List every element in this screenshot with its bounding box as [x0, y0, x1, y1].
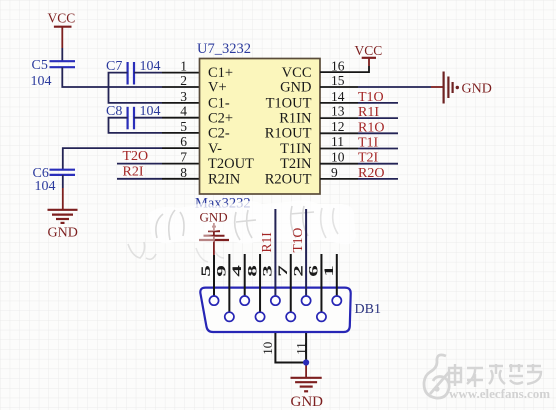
svg-text:5: 5: [199, 265, 213, 277]
wire pin4 (C2+) to C8: [134, 117, 162, 119]
svg-text:T1OUT: T1OUT: [266, 96, 312, 112]
watermark (middle band): [128, 200, 356, 262]
svg-text:12: 12: [331, 119, 345, 134]
wire C8 to pin5 (C2-): [109, 118, 163, 133]
wire pin10 + net label T2I: [320, 151, 398, 166]
DB1 pin circle 1: [332, 296, 341, 305]
wire C5 to pin2 (V+): [62, 67, 162, 87]
DB1 pin circle 3: [271, 296, 280, 305]
wire pin6 (V-) to C6: [162, 147, 200, 149]
wire pin9 + net label R2O: [320, 166, 398, 181]
DB1 pin circle 2: [302, 296, 311, 305]
svg-text:5: 5: [180, 119, 187, 134]
svg-text:C5: C5: [32, 58, 48, 73]
DB9 vertical wire 3 (R1I): [274, 209, 276, 296]
svg-text:8: 8: [180, 165, 187, 180]
svg-text:16: 16: [331, 58, 345, 73]
svg-text:10: 10: [331, 150, 345, 165]
svg-text:T2I: T2I: [358, 151, 379, 166]
svg-text:T1IN: T1IN: [280, 141, 312, 157]
watermark logo (bottom-right): [424, 355, 449, 398]
svg-text:R2I: R2I: [123, 164, 144, 179]
DB1 pin circle 8: [255, 312, 264, 321]
wire pin1 (C1+) to C7: [134, 72, 162, 74]
svg-text:GND: GND: [462, 82, 492, 97]
svg-text:3: 3: [261, 265, 275, 277]
wire C7 to pin3 (C1-): [109, 73, 163, 103]
svg-text:15: 15: [331, 73, 345, 88]
U7 right pin names: [265, 65, 312, 187]
svg-text:R1I: R1I: [259, 232, 274, 253]
svg-text:13: 13: [331, 104, 345, 119]
svg-text:2: 2: [292, 265, 306, 277]
svg-text:GND: GND: [280, 80, 311, 96]
svg-text:9: 9: [215, 265, 229, 277]
svg-text:14: 14: [331, 89, 345, 104]
svg-text:U7_3232: U7_3232: [197, 41, 251, 57]
svg-text:7: 7: [276, 265, 290, 277]
power VCC (right): [355, 43, 383, 58]
svg-text:7: 7: [180, 150, 187, 165]
wire pin11 + net label T1I: [320, 136, 398, 151]
DB9 vertical wire 9: [228, 254, 230, 313]
svg-text:R1O: R1O: [358, 120, 384, 135]
ground GND (C6): [48, 210, 78, 241]
U7 left pin names: [208, 65, 254, 187]
wire pin15 (GND): [320, 86, 358, 88]
svg-text:DB1: DB1: [355, 302, 381, 317]
capacitor C7: [106, 59, 161, 84]
wire pin7 (T2OUT): [117, 163, 162, 165]
wire pin8 (R2IN): [117, 178, 162, 180]
svg-text:R1I: R1I: [358, 105, 379, 120]
svg-text:R1OUT: R1OUT: [265, 126, 312, 142]
wire pin14 + net label T1O: [320, 90, 398, 105]
svg-text:C2-: C2-: [208, 126, 230, 142]
svg-text:T2OUT: T2OUT: [208, 156, 254, 172]
svg-text:GND: GND: [48, 226, 78, 241]
svg-text:www.elecfans.com: www.elecfans.com: [449, 386, 550, 401]
svg-text:R2OUT: R2OUT: [265, 171, 312, 187]
wire C6 to ground: [62, 175, 64, 188]
capacitor C6: [33, 166, 76, 194]
svg-text:R2IN: R2IN: [208, 171, 241, 187]
svg-text:104: 104: [140, 104, 161, 119]
svg-text:6: 6: [180, 134, 187, 149]
DB9 vertical wire 4: [244, 254, 246, 296]
svg-text:2: 2: [180, 73, 187, 88]
wire pin16 to VCC: [320, 66, 369, 72]
DB9 vertical wire 8: [259, 254, 261, 313]
wire pin13 + net label R1I: [320, 105, 398, 120]
capacitor C8: [106, 104, 161, 129]
op-amp U7 Max3232 body: [195, 41, 320, 212]
svg-text:T1O: T1O: [290, 228, 305, 253]
svg-text:9: 9: [331, 165, 338, 180]
svg-text:C1-: C1-: [208, 96, 230, 112]
svg-text:11: 11: [331, 134, 344, 149]
svg-text:1: 1: [322, 265, 336, 277]
wire VCC to C5: [61, 48, 63, 61]
DB1 pin circle 9: [225, 312, 234, 321]
svg-text:104: 104: [31, 74, 52, 89]
svg-text:V-: V-: [208, 141, 222, 157]
wire pin10 of DB1: [275, 333, 306, 363]
wire pin12 + net label R1O: [320, 120, 398, 135]
svg-text:11: 11: [294, 342, 309, 355]
svg-text:T1I: T1I: [358, 136, 379, 151]
svg-text:VCC: VCC: [355, 43, 383, 58]
U7 left pin numbers: [180, 58, 187, 179]
svg-text:GND: GND: [200, 209, 228, 224]
svg-text:1: 1: [180, 58, 187, 73]
svg-text:GND: GND: [291, 394, 324, 410]
svg-text:VCC: VCC: [48, 11, 76, 26]
svg-text:T2IN: T2IN: [280, 156, 312, 172]
svg-text:R1IN: R1IN: [279, 111, 312, 127]
DB1 pin circle 7: [286, 312, 295, 321]
ground GND (DB1): [291, 378, 324, 410]
svg-text:104: 104: [35, 179, 56, 194]
DB9 vertical wire 2 (T1O): [305, 209, 307, 296]
svg-text:C8: C8: [106, 104, 122, 119]
wire pin11 of DB1: [305, 333, 307, 363]
svg-text:8: 8: [245, 265, 259, 277]
capacitor C5: [31, 58, 76, 89]
svg-text:T1O: T1O: [358, 90, 384, 105]
DB9 vertical wire 6: [320, 254, 322, 313]
wire junction to ground: [305, 363, 307, 378]
svg-text:T2O: T2O: [123, 149, 149, 164]
ground GND (right, rotated): [444, 72, 492, 104]
svg-text:4: 4: [180, 104, 187, 119]
power VCC (left): [48, 11, 76, 48]
connector DB1 body: [200, 288, 350, 332]
svg-text:10: 10: [260, 342, 275, 355]
svg-text:3: 3: [180, 89, 187, 104]
DB1 pin circle 5: [209, 296, 218, 305]
DB9 vertical wire 1: [336, 254, 338, 296]
watermark white patches: [204, 222, 219, 232]
DB1 pin circle 4: [240, 296, 249, 305]
svg-text:V+: V+: [208, 80, 227, 96]
DB9 vertical wire 7: [290, 254, 292, 313]
svg-text:4: 4: [230, 265, 244, 277]
DB9 vertical wire 5: [213, 255, 215, 296]
watermark text 电子发烧友 (glyph shapes): [449, 364, 541, 387]
U7 right pin numbers: [331, 58, 345, 179]
junction: [303, 359, 309, 365]
svg-text:C2+: C2+: [208, 111, 233, 127]
ground GND (DB9 pin5, flipped): [199, 209, 229, 255]
svg-text:6: 6: [307, 265, 321, 277]
DB1 pin circle 6: [317, 312, 326, 321]
svg-text:R2O: R2O: [358, 166, 384, 181]
